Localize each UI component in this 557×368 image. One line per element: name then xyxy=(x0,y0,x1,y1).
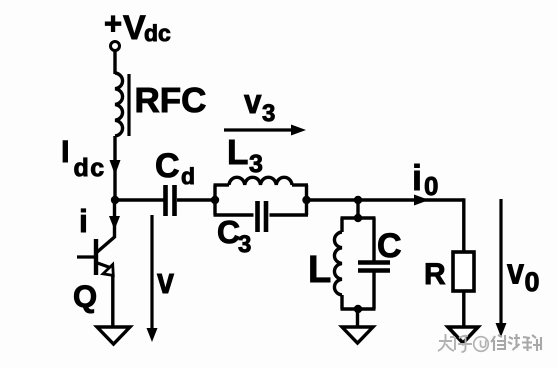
transistor Q collector lead xyxy=(96,237,115,253)
svg-text:d: d xyxy=(181,163,195,189)
svg-text:V: V xyxy=(123,9,146,47)
label v0 xyxy=(507,251,540,298)
label i0 xyxy=(412,157,438,201)
arrow v3 xyxy=(224,125,306,136)
svg-text:Q: Q xyxy=(73,279,97,314)
svg-text:C: C xyxy=(217,214,240,250)
svg-text:3: 3 xyxy=(238,231,251,258)
svg-text:R: R xyxy=(424,258,446,291)
svg-text:L: L xyxy=(308,249,331,291)
svg-text:v: v xyxy=(244,83,262,121)
svg-text:0: 0 xyxy=(525,267,540,297)
node tank bottom xyxy=(354,305,362,313)
svg-text:i: i xyxy=(79,203,88,239)
node collector xyxy=(111,196,119,204)
node tank top xyxy=(354,214,362,222)
label Idc xyxy=(61,134,106,182)
svg-text:3: 3 xyxy=(249,150,263,178)
svg-text:v: v xyxy=(507,251,524,292)
svg-text:0: 0 xyxy=(424,171,438,201)
wire Cd to box xyxy=(177,198,215,201)
svg-text:I: I xyxy=(61,134,70,169)
arrow Idc xyxy=(110,160,121,175)
node right of L3C3 xyxy=(302,196,310,204)
wire collector xyxy=(113,200,116,238)
svg-text:L: L xyxy=(227,133,248,172)
label L3 xyxy=(227,133,263,178)
inductor RFC xyxy=(115,73,206,136)
svg-text:3: 3 xyxy=(262,100,275,127)
wire node to corner xyxy=(358,198,464,201)
capacitor C3 xyxy=(258,201,267,232)
arrow v0 xyxy=(496,199,507,337)
wire output node down to tank xyxy=(356,200,359,218)
wire box to output node xyxy=(307,198,359,201)
tank frame xyxy=(341,218,376,309)
svg-text:dc: dc xyxy=(144,20,171,46)
label Cd xyxy=(155,147,195,189)
svg-text:C: C xyxy=(155,147,180,185)
node left of L3C3 xyxy=(211,196,219,204)
wire R to ground xyxy=(462,291,465,327)
wire corner down to R xyxy=(462,198,465,252)
svg-text:+: + xyxy=(104,6,122,41)
wire Vdc to RFC xyxy=(113,51,116,75)
label C3 xyxy=(217,214,251,258)
arrow v xyxy=(147,215,158,342)
capacitor Cd xyxy=(166,185,175,216)
wire tank to ground xyxy=(356,309,359,327)
ground under tank xyxy=(342,327,373,343)
label +Vdc xyxy=(104,6,171,47)
parallel L3 C3 network frame xyxy=(214,185,309,215)
wire emitter to ground xyxy=(111,276,114,327)
wire RFC to node xyxy=(113,136,116,200)
transistor Q base lead xyxy=(77,255,96,258)
svg-text:dc: dc xyxy=(74,154,106,182)
capacitor C xyxy=(358,263,390,271)
transistor Q base bar xyxy=(94,239,98,275)
arrow i xyxy=(109,216,120,230)
inductor L3 xyxy=(229,177,292,185)
transistor Q emitter arrowhead xyxy=(103,265,113,276)
svg-text:v: v xyxy=(157,260,174,301)
ground under R xyxy=(448,327,478,343)
node output xyxy=(354,196,362,204)
watermark zhihu xyxy=(438,334,488,352)
label v3 xyxy=(244,83,275,127)
terminal +Vdc xyxy=(111,42,120,51)
inductor L xyxy=(334,232,342,295)
svg-text:C: C xyxy=(377,227,402,265)
resistor R xyxy=(453,252,474,291)
transistor Q emitter lead xyxy=(96,263,110,268)
ground under Q xyxy=(97,327,130,344)
svg-text:i: i xyxy=(412,157,422,198)
arrow i0 xyxy=(414,195,429,206)
svg-text:RFC: RFC xyxy=(135,81,207,120)
wire node to Cd xyxy=(115,198,164,201)
